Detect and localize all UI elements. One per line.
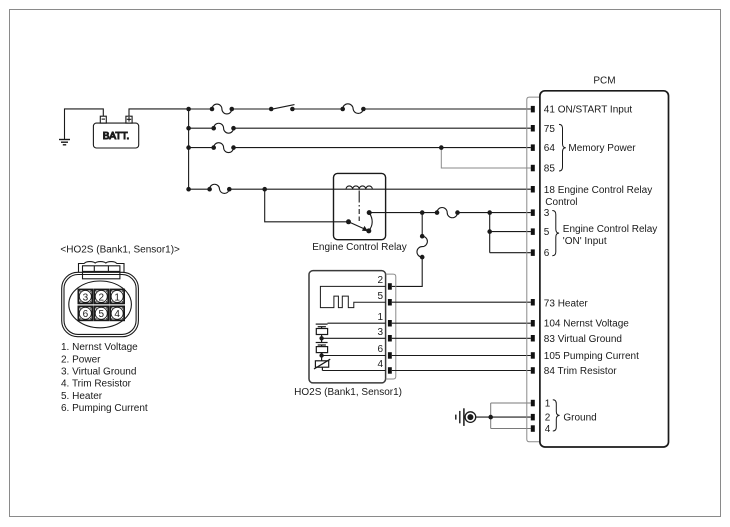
PCM pin 6 bbox=[531, 249, 535, 256]
svg-text:41 ON/START Input: 41 ON/START Input bbox=[544, 105, 633, 116]
connector tab bbox=[79, 264, 125, 273]
svg-text:64: 64 bbox=[544, 143, 556, 154]
wire ground branch pins1,4 bbox=[491, 403, 531, 429]
HO2S pin6 wire bbox=[322, 355, 386, 357]
svg-text:HO2S (Bank1, Sensor1): HO2S (Bank1, Sensor1) bbox=[294, 387, 402, 398]
switch S1 contact left bbox=[269, 107, 274, 112]
PCM pin 85 bbox=[531, 165, 535, 172]
ground (battery negative chassis ground) bbox=[59, 109, 103, 145]
svg-text:104 Nernst Voltage: 104 Nernst Voltage bbox=[544, 319, 629, 330]
wire row 75 bbox=[189, 127, 214, 129]
brace Memory Power bbox=[559, 124, 566, 171]
junction bus/row41 bbox=[186, 107, 191, 112]
HO2S pumping cell bbox=[316, 338, 328, 355]
HO2S connector pins bbox=[388, 283, 392, 374]
connector pin numbers bbox=[83, 292, 121, 320]
svg-text:4: 4 bbox=[545, 424, 551, 435]
fuse row41 a bbox=[212, 104, 232, 114]
PCM pin 18 bbox=[531, 186, 535, 193]
relay coil bbox=[346, 186, 372, 189]
svg-text:4: 4 bbox=[114, 309, 120, 320]
svg-text:83 Virtual Ground: 83 Virtual Ground bbox=[544, 334, 622, 345]
fuse F1 end dot right bbox=[230, 107, 235, 112]
wire row 18 bbox=[189, 188, 210, 190]
svg-text:PCM: PCM bbox=[593, 76, 615, 87]
HO2S connector face bbox=[62, 262, 139, 337]
PCM pin 84 bbox=[531, 367, 535, 374]
junction row18/relay switch feed bbox=[262, 187, 267, 192]
wire relay switch feed bbox=[265, 189, 349, 222]
junction row64/row85 branch bbox=[439, 145, 444, 150]
svg-text:73 Heater: 73 Heater bbox=[544, 298, 589, 309]
switch row41 bbox=[271, 105, 294, 110]
wire row 64 bbox=[189, 147, 214, 149]
fuse row18 bbox=[210, 184, 230, 193]
relay switch fixed contact left bbox=[346, 219, 351, 224]
svg-text:1. Nernst Voltage: 1. Nernst Voltage bbox=[61, 342, 138, 353]
fuse F6 end dot left bbox=[435, 210, 440, 215]
HO2S pin 1 bbox=[388, 320, 392, 327]
connector body outer bbox=[62, 272, 139, 336]
fuse F3 end dot right bbox=[231, 126, 236, 131]
svg-text:2: 2 bbox=[377, 275, 383, 286]
PCM connector shell bbox=[527, 97, 540, 442]
HO2S pin 2 bbox=[388, 283, 392, 290]
connector body inner bbox=[64, 275, 136, 335]
HO2S trim resistor bbox=[314, 356, 330, 371]
svg-text:84 Trim Resistor: 84 Trim Resistor bbox=[544, 366, 617, 377]
svg-text:3: 3 bbox=[83, 292, 89, 303]
HO2S pin4 wire bbox=[322, 370, 385, 372]
junction bus/row64 bbox=[186, 145, 191, 150]
PCM pin 73 bbox=[531, 299, 535, 306]
relay switch arrowhead bbox=[362, 226, 368, 231]
HO2S pin3 wire bbox=[322, 337, 386, 339]
HO2S pin 5 bbox=[388, 299, 392, 306]
svg-text:<HO2S (Bank1, Sensor1)>: <HO2S (Bank1, Sensor1)> bbox=[60, 245, 180, 256]
PCM pin 2 bbox=[531, 414, 535, 421]
brace Ground bbox=[553, 400, 560, 431]
fuse vertical pin2 bbox=[417, 236, 427, 257]
relay switch arm bbox=[349, 222, 367, 230]
pin squares grid bbox=[78, 290, 124, 321]
wire relay output row 3 bbox=[369, 212, 437, 214]
wire HO2S pin2 feed from row 3 bbox=[421, 213, 423, 237]
HO2S pin 3 bbox=[388, 335, 392, 342]
PCM connector pins bbox=[531, 106, 535, 432]
svg-text:Engine Control Relay: Engine Control Relay bbox=[563, 224, 658, 235]
svg-text:3: 3 bbox=[544, 208, 550, 219]
fuse F2 end dot right bbox=[361, 107, 366, 112]
PCM pin 1 bbox=[531, 400, 535, 407]
svg-text:6. Pumping Current: 6. Pumping Current bbox=[61, 403, 148, 414]
fuse row64 bbox=[214, 143, 234, 153]
svg-text:Memory Power: Memory Power bbox=[568, 143, 636, 154]
junction ground node bbox=[488, 415, 493, 420]
PCM pin 75 bbox=[531, 125, 535, 132]
svg-text:Control: Control bbox=[545, 197, 577, 208]
svg-text:Engine Control Relay: Engine Control Relay bbox=[312, 242, 407, 253]
wire rows 5 and 6 branch bbox=[489, 213, 491, 253]
HO2S pin 4 bbox=[388, 367, 392, 374]
HO2S pin 6 bbox=[388, 352, 392, 359]
wire row 85 branch from row 64 bbox=[441, 148, 531, 168]
svg-text:2. Power: 2. Power bbox=[61, 354, 101, 365]
junction nernst/virtual ground node bbox=[319, 336, 323, 340]
svg-text:3. Virtual Ground: 3. Virtual Ground bbox=[61, 367, 136, 378]
svg-text:5: 5 bbox=[377, 291, 383, 302]
wire battery plus to bus bbox=[129, 109, 189, 116]
PCM pin 4 bbox=[531, 425, 535, 432]
svg-text:2: 2 bbox=[98, 292, 104, 303]
fuse F6 end dot right bbox=[455, 210, 460, 215]
fuse row3 bbox=[437, 208, 458, 218]
junction node pin3/5/6 bbox=[487, 210, 492, 215]
svg-text:18 Engine Control Relay: 18 Engine Control Relay bbox=[544, 185, 652, 196]
relay switch output contact bbox=[367, 210, 372, 215]
switch S1 contact right bbox=[290, 107, 295, 112]
svg-text:Ground: Ground bbox=[563, 413, 596, 424]
fuse F7 end dot top bbox=[420, 234, 425, 239]
svg-text:2: 2 bbox=[545, 413, 551, 424]
wire row 41 bbox=[189, 108, 212, 110]
fuse F4 end dot left bbox=[211, 145, 216, 150]
HO2S connector shell bbox=[386, 274, 396, 379]
fuse F3 end dot left bbox=[211, 126, 216, 131]
relay link dashed bbox=[358, 191, 360, 222]
fuse F1 end dot left bbox=[210, 107, 215, 112]
fuse F5 end dot left bbox=[207, 187, 212, 192]
svg-text:4: 4 bbox=[377, 359, 383, 370]
svg-text:85: 85 bbox=[544, 164, 556, 175]
brace ECR ON input bbox=[552, 211, 559, 256]
wire bus vertical bbox=[188, 109, 190, 189]
legend bbox=[61, 342, 148, 414]
svg-text:105 Pumping Current: 105 Pumping Current bbox=[544, 351, 639, 362]
junction bus/row75 bbox=[186, 126, 191, 131]
svg-text:6: 6 bbox=[377, 344, 383, 355]
PCM pin 105 bbox=[531, 352, 535, 359]
PCM box bbox=[540, 91, 669, 447]
HO2S sensor box bbox=[309, 271, 386, 383]
svg-text:'ON' Input: 'ON' Input bbox=[563, 236, 607, 247]
PCM pin 41 bbox=[531, 106, 535, 113]
PCM pin 64 bbox=[531, 144, 535, 151]
svg-text:1: 1 bbox=[377, 312, 383, 323]
chassis ground bullseye bbox=[456, 408, 476, 426]
fuse F2 end dot left bbox=[340, 107, 345, 112]
svg-text:3: 3 bbox=[377, 327, 383, 338]
junction relay output/pin2 branch bbox=[420, 210, 425, 215]
relay U1 Engine Control Relay box bbox=[334, 173, 386, 239]
wire ground to pin2 bbox=[475, 416, 531, 418]
svg-text:BATT.: BATT. bbox=[103, 131, 129, 142]
fuse F4 end dot right bbox=[231, 145, 236, 150]
svg-text:5: 5 bbox=[544, 227, 550, 238]
svg-text:1: 1 bbox=[114, 292, 120, 303]
PCM pin 83 bbox=[531, 335, 535, 342]
relay switch moving contact bbox=[366, 228, 371, 233]
svg-text:1: 1 bbox=[545, 399, 551, 410]
PCM pin labels bbox=[544, 105, 652, 435]
svg-text:4. Trim Resistor: 4. Trim Resistor bbox=[61, 379, 132, 390]
junction pumping/trim node bbox=[319, 353, 323, 357]
junction node pin5 bbox=[487, 229, 492, 234]
junction bus/row18 bbox=[186, 187, 191, 192]
svg-text:75: 75 bbox=[544, 124, 556, 135]
connector pin oval bbox=[69, 281, 132, 328]
PCM pin 104 bbox=[531, 320, 535, 327]
battery BATT. bbox=[93, 116, 138, 148]
svg-text:6: 6 bbox=[544, 248, 550, 259]
fuse F5 end dot right bbox=[227, 187, 232, 192]
HO2S nernst cell bbox=[316, 323, 386, 338]
PCM pin 5 bbox=[531, 228, 535, 235]
relay switch arc bbox=[369, 213, 372, 231]
HO2S pin numbers bbox=[377, 275, 383, 370]
HO2S heater element bbox=[320, 286, 385, 307]
fuse F7 end dot bottom bbox=[420, 255, 425, 260]
fuse row41 b bbox=[343, 104, 364, 114]
svg-text:5. Heater: 5. Heater bbox=[61, 391, 103, 402]
fuse row75 bbox=[214, 123, 234, 133]
svg-text:6: 6 bbox=[83, 309, 89, 320]
wires HO2S to PCM bbox=[392, 301, 531, 303]
svg-text:5: 5 bbox=[98, 309, 104, 320]
PCM pin 3 bbox=[531, 209, 535, 216]
